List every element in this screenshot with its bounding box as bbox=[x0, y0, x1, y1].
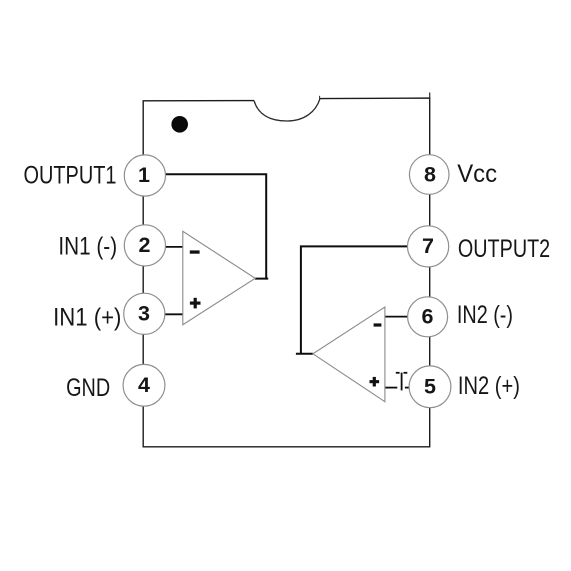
svg-text:IN1 (-): IN1 (-) bbox=[58, 233, 117, 261]
pin 3 circle bbox=[124, 293, 165, 334]
svg-text:5: 5 bbox=[424, 375, 436, 399]
svg-text:3: 3 bbox=[138, 302, 150, 326]
U2 inverting input label (-) bbox=[374, 323, 382, 326]
notch (pin-1 end indicator) bbox=[254, 99, 320, 121]
notch-right tick bbox=[319, 96, 321, 100]
svg-text:7: 7 bbox=[422, 234, 434, 258]
U1 non-inverting input label (+) bbox=[190, 298, 201, 309]
U2 non-inverting input label (+) bbox=[370, 377, 380, 387]
pin 7 circle bbox=[408, 226, 449, 267]
corner overshoot tick (top-right) bbox=[429, 93, 431, 99]
pin 8 circle bbox=[409, 155, 449, 195]
svg-text:OUTPUT1: OUTPUT1 bbox=[24, 161, 117, 189]
IC body outline U1 (8-pin DIP) bbox=[143, 98, 430, 447]
svg-text:IN2 (-): IN2 (-) bbox=[457, 301, 513, 329]
op-amp U1 (left, points right) bbox=[183, 231, 255, 324]
op-amp U2 (right, points left) bbox=[313, 307, 385, 402]
wire pin1 to op-amp U1 output (feedback path) bbox=[166, 174, 269, 278]
wire pin2 stub to U1 inverting input bbox=[165, 246, 183, 248]
pin 4 circle bbox=[123, 364, 165, 406]
svg-text:IN1 (+): IN1 (+) bbox=[53, 303, 121, 331]
wire pin6 stub to U2 inverting input bbox=[385, 316, 408, 318]
svg-text:2: 2 bbox=[139, 233, 151, 257]
svg-text:GND: GND bbox=[66, 374, 110, 402]
svg-text:IN2 (+): IN2 (+) bbox=[458, 372, 520, 400]
svg-text:6: 6 bbox=[422, 305, 434, 329]
wire pin5 stub to U2 non-inverting input (with gap) bbox=[385, 387, 410, 389]
svg-text:1: 1 bbox=[138, 163, 150, 187]
svg-text:8: 8 bbox=[424, 162, 436, 186]
wire pin7 to op-amp U2 output bbox=[296, 246, 408, 353]
pin 1 circle bbox=[124, 155, 165, 196]
text-cursor artifact near pin5 wire bbox=[396, 373, 408, 391]
pin-1 marker dot bbox=[171, 116, 188, 133]
pin 5 circle bbox=[409, 366, 451, 408]
pin 6 circle bbox=[408, 297, 448, 337]
U1 inverting input label (-) bbox=[190, 250, 200, 253]
svg-text:Vcc: Vcc bbox=[457, 160, 497, 188]
pin 2 circle bbox=[124, 225, 165, 266]
wire pin3 stub to U1 non-inverting input bbox=[165, 313, 183, 315]
svg-text:4: 4 bbox=[138, 373, 150, 397]
svg-text:OUTPUT2: OUTPUT2 bbox=[458, 235, 550, 263]
